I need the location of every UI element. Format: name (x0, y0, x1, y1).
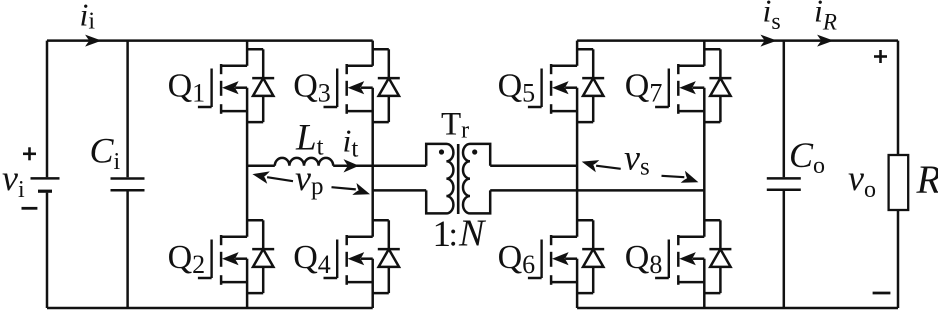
svg-text::: : (449, 217, 458, 254)
svg-text:R: R (916, 157, 938, 202)
svg-text:N: N (458, 213, 487, 255)
